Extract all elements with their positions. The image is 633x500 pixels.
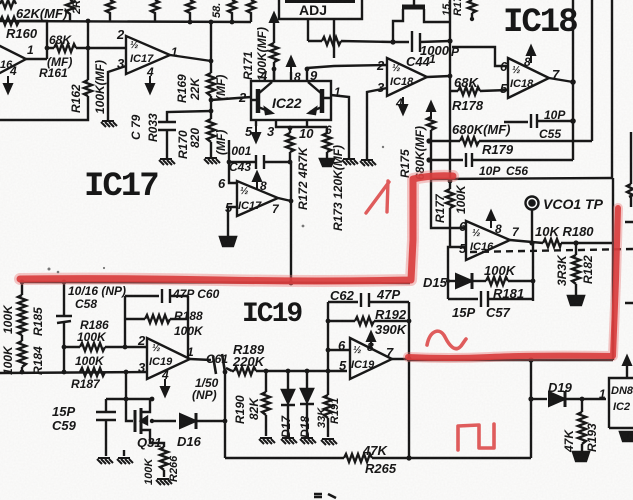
- capacitor C60 row y296: [125, 289, 188, 303]
- wire IC18a output: [427, 76, 450, 77]
- vertical x573 top: [572, 0, 574, 160]
- red highlight path B halo: [408, 208, 618, 358]
- arrow up pin8 IC18b: [527, 46, 535, 63]
- wire D19 row y399: [531, 398, 547, 400]
- transistor left in IC22: [256, 89, 261, 113]
- wire C59 row y399: [106, 398, 152, 400]
- wire pin3 IC18a to ground: [367, 88, 387, 159]
- resistor R192 390K row y321: [328, 317, 409, 325]
- op-amp IC18b triangle: [508, 58, 549, 98]
- wire pin6 IC17c column: [229, 140, 237, 183]
- bottom wire y458: [225, 454, 531, 462]
- resistor R180 10K: [543, 239, 561, 247]
- ground stub x124: [123, 450, 125, 456]
- wire 62K to junction: [19, 21, 47, 59]
- red sawtooth symbol: [366, 181, 389, 213]
- red highlight path A halo: [20, 176, 453, 281]
- red highlight path B: [408, 208, 618, 358]
- resistor partial top-left corner: [0, 0, 16, 8]
- left column R185/R184: [18, 282, 26, 372]
- vertical x126 gate column: [126, 372, 133, 421]
- resistor vertical above bus x232: [228, 0, 236, 22]
- ground IC2 filled: [620, 432, 633, 441]
- wire row y372 left: [0, 372, 147, 373]
- resistor R191 33K vertical: [324, 371, 332, 437]
- vertical x225 D16/R265: [224, 372, 226, 458]
- ground C79: [159, 159, 175, 165]
- feedback vertical x188: [187, 296, 189, 358]
- wire feedback row y47 to pin6 IC18b: [452, 47, 508, 66]
- resistor R172 4R7K vertical: [286, 127, 294, 162]
- R175 column: arrow + resistor: [427, 102, 435, 119]
- wire row y41 with resistor: [308, 37, 393, 45]
- ground R193 filled: [573, 452, 589, 461]
- resistor R173 120K(MF) vertical: [323, 127, 331, 158]
- ground IC18a pin3: [360, 160, 376, 166]
- diode D16: [180, 413, 196, 429]
- red highlight path A: [20, 176, 453, 281]
- ground R170: [204, 158, 220, 164]
- resistor R177 100K vertical: [446, 181, 454, 246]
- IC2 box partial: [609, 378, 633, 428]
- wire IC19b output: [392, 358, 409, 360]
- wire top of VCO box y178: [431, 178, 612, 179]
- resistor vertical at bus end x251: [247, 0, 255, 22]
- wire pin6 IC19b: [328, 349, 350, 351]
- right edge column: [627, 132, 633, 207]
- wire pin5 IC16: [448, 247, 466, 299]
- arrow down pin4 IC19a: [161, 379, 169, 396]
- op-amp IC16 triangle: [466, 221, 510, 260]
- arrow down pin4 opamp A: [4, 76, 12, 93]
- resistor R160 62K(MF): [0, 17, 19, 25]
- vertical x533 TP node down: [532, 243, 534, 301]
- arrow up pin8 IC17c: [253, 172, 261, 189]
- capacitor C43 row y162: [229, 155, 290, 169]
- ground IC17c filled: [220, 237, 236, 246]
- right edge tick marks: [625, 222, 633, 303]
- resistor R170 820 vertical: [207, 111, 215, 157]
- wire bus drop to 68K junction: [87, 21, 89, 48]
- resistor R193 47K vertical: [578, 399, 586, 452]
- IC22 pin9 wire: [306, 68, 308, 81]
- wire top bus: [0, 21, 251, 22]
- transistor Q31: [134, 410, 137, 432]
- wire long row y360 under red: [409, 359, 613, 361]
- wire long row y282 under red: [22, 282, 410, 283]
- wire R171 column: [273, 20, 275, 43]
- resistor R187 row y372: [80, 368, 105, 376]
- arrow up pin8 IC19b: [367, 332, 375, 349]
- wire node column x211 from bus: [210, 22, 212, 61]
- wire pin2 IC17a: [88, 47, 126, 49]
- IC22 pin5 supply arrow down: [255, 120, 257, 126]
- wire IC17c output node x291: [278, 162, 291, 283]
- arrow up R171: [270, 13, 278, 30]
- resistor R178 68K row: [450, 87, 508, 95]
- resistor R188 row y319: [125, 315, 188, 323]
- wire C79 branch: [167, 111, 211, 121]
- FET stub up: [413, 0, 415, 5]
- resistor vertical above bus x190: [186, 0, 194, 22]
- ground C59: [97, 458, 113, 464]
- bottom edge partial marks: [314, 494, 336, 498]
- resistor R171 100K(MF) vertical: [270, 43, 278, 81]
- small resistor off-top x472: [468, 0, 476, 19]
- IC22 pin18 arrow up: [287, 57, 295, 74]
- capacitor C62 row y302: [328, 293, 409, 307]
- vertical x613 VCO box right: [612, 178, 614, 360]
- capacitor C44 on row: [393, 31, 450, 52]
- vertical x592 top: [591, 0, 593, 141]
- resistor R169 22K vertical: [207, 61, 215, 111]
- resistor R189 220K row y371: [232, 367, 347, 375]
- wire IC19a output: [190, 359, 211, 360]
- op-amp IC18a triangle: [387, 58, 427, 96]
- op-amp IC19a triangle: [147, 338, 190, 379]
- ground IC22 pin1: [342, 159, 358, 165]
- resistor R162 100K(MF) vertical: [0, 48, 92, 120]
- op-amp U-A triangle left edge: [0, 45, 26, 74]
- wire pin2 row y65 from IC22 pin9: [307, 65, 387, 68]
- ground R182 filled: [568, 296, 584, 305]
- wire D16 row y421: [150, 420, 176, 422]
- arrow down pin4 IC17a: [146, 76, 154, 93]
- arrow up above IC2: [626, 362, 628, 378]
- IC22 pin1 wire to ground: [331, 95, 349, 158]
- vertical x531: [530, 360, 532, 458]
- op-amp IC19b triangle: [350, 338, 392, 379]
- wire TP down: [531, 210, 533, 243]
- capacitor C59: [96, 399, 116, 456]
- capacitor C79 plates: [158, 122, 176, 130]
- resistor R190 82K vertical: [262, 371, 270, 436]
- resistor 100K on D15 row: [486, 277, 533, 285]
- resistor R266 100K vertical: [158, 443, 168, 477]
- wire output opamp A: [26, 58, 47, 60]
- ground R266: [156, 479, 172, 485]
- wire ADJ pin to resistor row: [307, 19, 309, 41]
- transistor right in IC22: [320, 89, 325, 113]
- IC22 pin2 wire: [211, 97, 251, 100]
- IC22 pin4 wire: [273, 69, 275, 81]
- wire IC16 output row y243: [510, 240, 613, 243]
- wire pin3 IC17a to ground: [108, 66, 126, 120]
- capacitor C57 row y299: [448, 291, 533, 307]
- ADJ box: [279, 0, 362, 19]
- VCO1 TP test point: [526, 197, 539, 210]
- wire IC18b output pin7: [549, 78, 573, 82]
- wire C79 to ground: [166, 130, 168, 158]
- capacitor C55 row y122: [504, 114, 573, 128]
- capacitor C61 slanted plates: [213, 354, 225, 374]
- FET legs: [393, 9, 450, 42]
- resistor R179 680K(MF) row y141: [429, 137, 592, 145]
- C58 column electrolytic: [56, 282, 72, 372]
- wire ADJ pin2 column: [333, 19, 335, 58]
- resistor vertical above bus x110: [106, 0, 114, 21]
- stray scan specks: [48, 146, 385, 274]
- feedback vertical x125: [124, 296, 126, 347]
- ground pin3: [101, 121, 117, 127]
- op-amp IC17c triangle: [237, 181, 278, 216]
- diode D15 row y281: [448, 280, 455, 282]
- resistor R161 68K: [47, 44, 88, 52]
- vertical x450 from top: [449, 0, 451, 181]
- wire pin5 IC17c to ground: [228, 207, 237, 236]
- IC22 box: [251, 81, 331, 120]
- red square wave symbol: [458, 424, 494, 450]
- op-amp IC17a triangle: [126, 36, 170, 74]
- resistor 2R vertical above bus: [66, 0, 74, 21]
- wire output IC17a to node: [170, 55, 211, 61]
- FET top: bar: [402, 5, 425, 10]
- red sine symbol: [427, 331, 466, 349]
- wire junction dots: [20, 17, 585, 461]
- diode D17 vertical: [281, 371, 295, 436]
- vertical x612 top: [611, 0, 613, 179]
- resistor vertical above bus x155: [151, 0, 159, 22]
- C62 R192 box verticals: [328, 302, 409, 458]
- arrow up pin8 IC16: [487, 211, 495, 228]
- arrow down pin4 IC18a: [399, 97, 407, 114]
- wire C56 row y160: [429, 153, 573, 167]
- resistor R182 3R3K vertical: [572, 243, 580, 296]
- IC22 pin3/pin10 bottom wire: [276, 120, 327, 127]
- dashed line: [470, 249, 633, 252]
- diode D18 vertical: [300, 371, 314, 436]
- wire row y347 R186: [64, 343, 147, 351]
- ground R173 blob: [320, 159, 334, 166]
- diode D19: [549, 391, 565, 407]
- corner to R177: [431, 181, 466, 228]
- wire C61 to R189: [226, 368, 232, 371]
